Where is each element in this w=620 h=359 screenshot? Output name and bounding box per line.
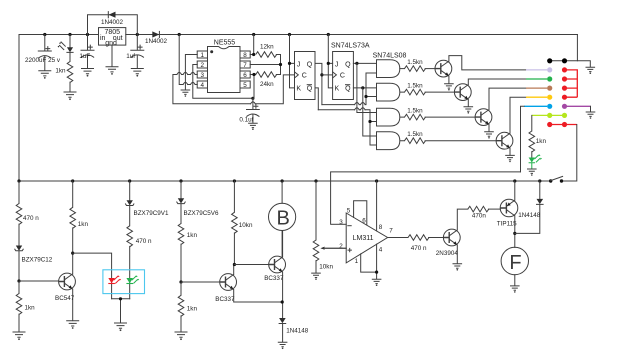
resistor 470n branch A: [16, 181, 39, 225]
node Q1 gate2 tap: [364, 95, 367, 98]
ground LED green: [527, 169, 537, 176]
wire JK1 Qbar out: [315, 88, 318, 110]
svg-text:NE555: NE555: [214, 39, 236, 46]
wire TIP115 collector: [514, 216, 516, 248]
node green pin: [547, 76, 552, 81]
wire Q2 emitter: [467, 100, 469, 107]
pin 4 box: [197, 81, 207, 89]
diode 1N4002 bypass: [88, 12, 138, 35]
op-amp U4 LM311: [339, 208, 393, 265]
ground Q4: [505, 155, 515, 162]
resistor 12kn: [256, 43, 281, 74]
svg-text:1N4002: 1N4002: [101, 19, 124, 26]
capacitor 0.1uf: [239, 98, 259, 123]
node top rail junctions: [43, 33, 330, 36]
box LED bicolor outline: [103, 270, 145, 294]
wire hop pin4: [191, 82, 196, 84]
wire LED pair common: [112, 299, 130, 323]
pin 8 box: [240, 51, 250, 59]
transistor BC337 first: [215, 274, 236, 303]
svg-text:LM311: LM311: [353, 235, 374, 242]
transistor 2N3904: [436, 229, 460, 257]
wire pin7 discharge: [250, 64, 280, 66]
ground LED pair: [114, 323, 127, 331]
transistor Q2 driver: [454, 84, 471, 101]
svg-text:BZX79C9V1: BZX79C9V1: [134, 210, 169, 217]
node black pins row1: [547, 58, 552, 63]
svg-text:1kn: 1kn: [536, 138, 547, 145]
svg-text:K: K: [335, 86, 340, 93]
capacitor 1uF input: [79, 35, 94, 69]
wire Q1 emitter: [448, 76, 450, 83]
wire BC337 second emitter: [282, 272, 284, 318]
ground LM311: [372, 279, 382, 286]
svg-text:7: 7: [243, 62, 247, 69]
node purple pin: [562, 104, 567, 109]
wire pin8 vcc: [250, 35, 254, 55]
svg-text:1: 1: [201, 52, 205, 59]
capacitor 1uF output: [126, 35, 144, 69]
wire JK2 Qbar to gate2: [353, 87, 376, 89]
wire Q1 vertical to gate1 gate2: [366, 73, 377, 97]
wire pin6 threshold: [250, 75, 256, 99]
node bottom rail junctions: [17, 179, 541, 182]
svg-text:1kn: 1kn: [187, 232, 198, 239]
wire pin3 output with hops: [173, 75, 295, 104]
wire lavender row2: [526, 69, 547, 71]
node pin1 pin4: [375, 271, 378, 274]
node Q2bar branch: [361, 86, 364, 89]
wire red drop to switch: [563, 125, 577, 182]
wire Q1bar to gate3 gate4: [370, 122, 377, 146]
potentiometer 10kn: [313, 181, 346, 273]
gate U3A AND: [373, 52, 407, 77]
svg-text:1.5kn: 1.5kn: [407, 82, 423, 89]
wire hop bus Q1: [355, 103, 366, 105]
node zener A: [17, 279, 20, 282]
wire LM311 pin3 input: [332, 223, 347, 225]
wire BC337 first collector: [233, 265, 235, 275]
svg-text:1uF: 1uF: [79, 53, 90, 60]
svg-text:10kn: 10kn: [239, 222, 253, 229]
wire red row8: [550, 124, 577, 126]
svg-text:gnd: gnd: [105, 40, 117, 47]
svg-text:1N4148: 1N4148: [518, 212, 541, 219]
node pin8: [252, 53, 255, 56]
wire brown row4: [526, 87, 547, 89]
svg-text:1.5kn: 1.5kn: [407, 59, 423, 66]
wire hop output over cap: [251, 102, 256, 104]
ground branch C: [175, 332, 188, 340]
wire Q4 collector row4: [510, 97, 526, 133]
resistor 1kn lamp: [529, 131, 546, 158]
diode 1N4148 emitter: [279, 318, 309, 342]
wire clock JK2: [322, 74, 333, 76]
transistor BC547: [55, 273, 75, 302]
wire chartreuse drop: [531, 115, 533, 131]
ground pin1: [181, 90, 191, 97]
resistor 10kn branch D: [232, 181, 253, 265]
resistor 1kn branch C: [178, 224, 197, 283]
fan F: [501, 247, 528, 285]
wire Q2bar vertical to gate4: [363, 88, 377, 136]
node TIP115 collector: [513, 232, 516, 235]
diode zener BZX79C5V6: [177, 181, 219, 224]
node red pins row8: [547, 122, 552, 127]
pin 7 box: [240, 61, 250, 69]
wire pin2 trigger: [193, 65, 253, 99]
regulator 7805: [99, 28, 126, 67]
wire bus Q1: [322, 73, 366, 105]
diode zener BZX79C9V1: [126, 181, 169, 226]
node discharge: [279, 63, 282, 66]
wire bus Q1bar: [318, 110, 370, 145]
wire left vertical bus: [18, 35, 20, 182]
svg-text:1N4148: 1N4148: [286, 328, 309, 335]
svg-text:BZX79C12: BZX79C12: [22, 257, 53, 264]
wire JK2 Q to gate1: [353, 62, 376, 64]
resistor 470n output: [388, 235, 444, 252]
wire BC547 collector: [72, 181, 74, 207]
node chartreuse pins: [547, 113, 552, 118]
wire base BC337 first: [181, 281, 220, 283]
resistor 1kn LED: [55, 62, 72, 92]
resistor 1kn collector BC547: [70, 207, 89, 274]
wire LM311 pin8 to rail: [376, 181, 378, 231]
svg-text:J: J: [335, 61, 339, 68]
resistor 1.5kn gate2: [405, 82, 455, 95]
ground Q3: [484, 132, 494, 139]
resistor 1kn branch C lower: [178, 282, 197, 332]
svg-text:BC337: BC337: [264, 275, 284, 282]
transistor Q1 driver: [435, 60, 452, 77]
svg-text:Q: Q: [345, 61, 351, 68]
node yellow pin: [547, 95, 552, 100]
wire Q2 vertical to gate3: [357, 63, 377, 112]
ground 7805: [106, 67, 119, 75]
wire Q3 collector row3: [489, 88, 526, 110]
wire feedback line: [331, 172, 521, 224]
wire 2N3904 emitter: [456, 245, 458, 264]
wire LM311 pin2 input: [323, 247, 346, 249]
node BC547 collector tap: [71, 252, 74, 255]
svg-text:8: 8: [243, 52, 247, 59]
transistor TIP115: [497, 199, 518, 227]
svg-text:1kn: 1kn: [187, 305, 198, 312]
node emitter join: [281, 300, 284, 303]
svg-text:470n: 470n: [472, 213, 487, 220]
svg-text:1: 1: [355, 258, 359, 265]
wire chartreuse row7: [532, 114, 565, 116]
svg-text:J: J: [297, 61, 301, 68]
wire hop pin3 over pin2: [191, 72, 196, 74]
diode 1N4148 flyback: [515, 181, 543, 233]
ground 1uF output: [131, 69, 144, 77]
svg-text:7: 7: [389, 227, 393, 234]
wire BC337 second collector: [282, 231, 284, 258]
pin 3 box: [197, 71, 207, 79]
ground LED resistor: [64, 92, 77, 100]
svg-text:2: 2: [339, 243, 343, 250]
svg-text:4: 4: [379, 247, 383, 254]
pin 2 box: [197, 61, 207, 69]
LED red in box: [108, 275, 121, 283]
svg-text:8: 8: [379, 224, 383, 231]
ground 1uF input: [81, 69, 94, 77]
resistor 1.5kn gate3: [405, 107, 476, 120]
wire yellow row5: [526, 96, 547, 98]
resistor 1.5kn gate4: [405, 131, 497, 144]
capacitor 2200uF 25v: [25, 35, 61, 71]
svg-text:24kn: 24kn: [260, 81, 274, 88]
wire blue row6: [524, 105, 547, 107]
svg-text:6: 6: [243, 72, 247, 79]
wire Q2 collector row2: [468, 79, 526, 85]
node LED pair: [119, 297, 122, 300]
svg-text:SN74LS08: SN74LS08: [373, 52, 407, 59]
ground 1N4148: [278, 342, 288, 349]
wire red comb strap rows2-5: [567, 70, 577, 97]
svg-text:5: 5: [347, 208, 351, 215]
LED green in box: [126, 275, 139, 283]
svg-text:470 n: 470 n: [411, 245, 427, 252]
svg-text:1.5kn: 1.5kn: [407, 107, 423, 114]
wire JK1 J K tie to rail: [290, 35, 295, 88]
svg-text:6: 6: [362, 218, 366, 225]
resistor 1kn branch A lower: [16, 281, 35, 332]
node JK2 J: [327, 62, 330, 65]
transistor Q3 driver: [475, 109, 492, 126]
svg-text:C: C: [302, 73, 307, 80]
wire BC337 first emitter: [234, 290, 282, 302]
wire LM311 balance loop pins 5 6: [354, 201, 367, 225]
gate U3C AND: [377, 108, 405, 126]
wire bottom switched rail: [19, 180, 550, 182]
wire green row3: [526, 78, 547, 80]
switch S1: [549, 176, 563, 182]
wire base BC547: [19, 280, 59, 282]
ground potentiometer: [311, 273, 321, 280]
ground Q2: [464, 107, 474, 114]
svg-text:1kn: 1kn: [78, 221, 89, 228]
wire BC547 emitter: [72, 289, 74, 321]
svg-text:1kn: 1kn: [25, 304, 36, 311]
pin 5 box: [240, 81, 250, 89]
svg-text:12kn: 12kn: [260, 43, 274, 50]
svg-text:1.5kn: 1.5kn: [407, 131, 423, 138]
wire black row1: [550, 61, 591, 67]
node Q1bar gate3 tap: [368, 120, 371, 123]
svg-text:470 n: 470 n: [136, 238, 152, 245]
node lavender pin: [547, 67, 552, 72]
node JK1 J: [288, 62, 291, 65]
pin 1 box: [197, 51, 207, 59]
svg-text:BZX79C5V6: BZX79C5V6: [184, 210, 219, 217]
wire JK1 Q out: [315, 63, 322, 104]
svg-text:Q: Q: [307, 86, 313, 93]
node branch D collector: [233, 263, 236, 266]
svg-text:F: F: [509, 252, 521, 274]
node trigger junction: [251, 97, 254, 100]
gate U3D AND: [377, 132, 405, 150]
svg-text:K: K: [296, 86, 301, 93]
svg-text:TIP115: TIP115: [497, 220, 517, 227]
transistor BC337 second: [264, 256, 285, 282]
resistor 470n branch B: [127, 226, 152, 299]
node JK1 Q to clock2: [320, 73, 323, 76]
svg-text:SN74LS73A: SN74LS73A: [331, 43, 370, 50]
transistor Q4 driver: [496, 132, 513, 149]
svg-text:3: 3: [201, 72, 205, 79]
ground fan F: [510, 286, 520, 293]
svg-text:1kn: 1kn: [55, 67, 66, 74]
diode zener BZX79C12: [15, 224, 53, 281]
flip-flop U2B SN74LS73A: [331, 43, 370, 100]
gate U3B AND: [377, 83, 405, 101]
svg-text:1N4002: 1N4002: [145, 38, 168, 45]
svg-text:2N3904: 2N3904: [436, 250, 459, 257]
wire purple row6: [567, 105, 591, 107]
wire pin4 reset to rail: [179, 35, 197, 85]
wire top rail drop to connector: [576, 35, 578, 61]
svg-text:1uf: 1uf: [126, 53, 135, 60]
op-amp U1 NE555 body: [208, 39, 241, 92]
node Q2 branch: [355, 62, 358, 65]
svg-text:470 n: 470 n: [23, 215, 39, 222]
resistor 24kn: [256, 72, 281, 88]
ground purple: [586, 112, 596, 119]
wire collector to LED pair: [73, 253, 112, 299]
ground row1: [586, 67, 596, 74]
node zener C: [179, 280, 182, 283]
wire TIP115 emitter to rail: [514, 181, 516, 200]
svg-text:0.1uf: 0.1uf: [239, 117, 253, 124]
wire blue feedback drop: [521, 106, 525, 172]
wire base BC337 second: [234, 264, 268, 266]
svg-text:2200uF 25 v: 2200uF 25 v: [25, 57, 61, 64]
svg-text:Q: Q: [345, 86, 351, 93]
wire JK2 J K tie to rail: [328, 35, 332, 88]
wire top +V rail: [19, 34, 577, 36]
ground 0.1uf: [248, 123, 258, 130]
svg-text:Q: Q: [307, 61, 313, 68]
node red pins rows2-5: [562, 67, 567, 72]
node pin6: [252, 73, 255, 76]
svg-text:BC337: BC337: [215, 296, 235, 303]
wire hop bus Q1bar: [355, 108, 366, 110]
ground 2200uF: [38, 71, 51, 79]
lamp B: [269, 181, 296, 257]
ground BC547: [66, 321, 79, 329]
LED indicator: [58, 35, 74, 62]
flip-flop U2A SN74LS73A: [295, 52, 316, 100]
wire LM311 pin1 pin4 ground: [361, 244, 377, 279]
svg-text:2: 2: [201, 62, 205, 69]
wire Q3 emitter: [488, 125, 490, 132]
diode 1N4002 series: [145, 31, 168, 45]
svg-text:B: B: [277, 208, 290, 230]
ground Q1: [444, 84, 454, 91]
wire 2N3904 collector: [457, 209, 468, 230]
node brown pin: [547, 86, 552, 91]
svg-text:10kn: 10kn: [319, 263, 333, 270]
LED green indicator: [529, 154, 542, 168]
wire Q1 collector row1: [449, 56, 526, 70]
svg-text:3: 3: [339, 219, 343, 226]
pin 6 box: [240, 71, 250, 79]
svg-text:4: 4: [201, 82, 205, 89]
resistor 470n base TIP115: [468, 206, 500, 219]
ground 2N3904: [453, 264, 463, 271]
svg-text:5: 5: [243, 82, 247, 89]
ground branch A: [13, 332, 26, 340]
resistor 1.5kn gate1: [405, 59, 436, 72]
svg-text:BC547: BC547: [55, 295, 75, 302]
svg-text:C: C: [340, 73, 345, 80]
wire pin1 to ground: [185, 55, 197, 90]
node blue pin: [547, 104, 552, 109]
wire Q4 emitter: [509, 148, 511, 155]
